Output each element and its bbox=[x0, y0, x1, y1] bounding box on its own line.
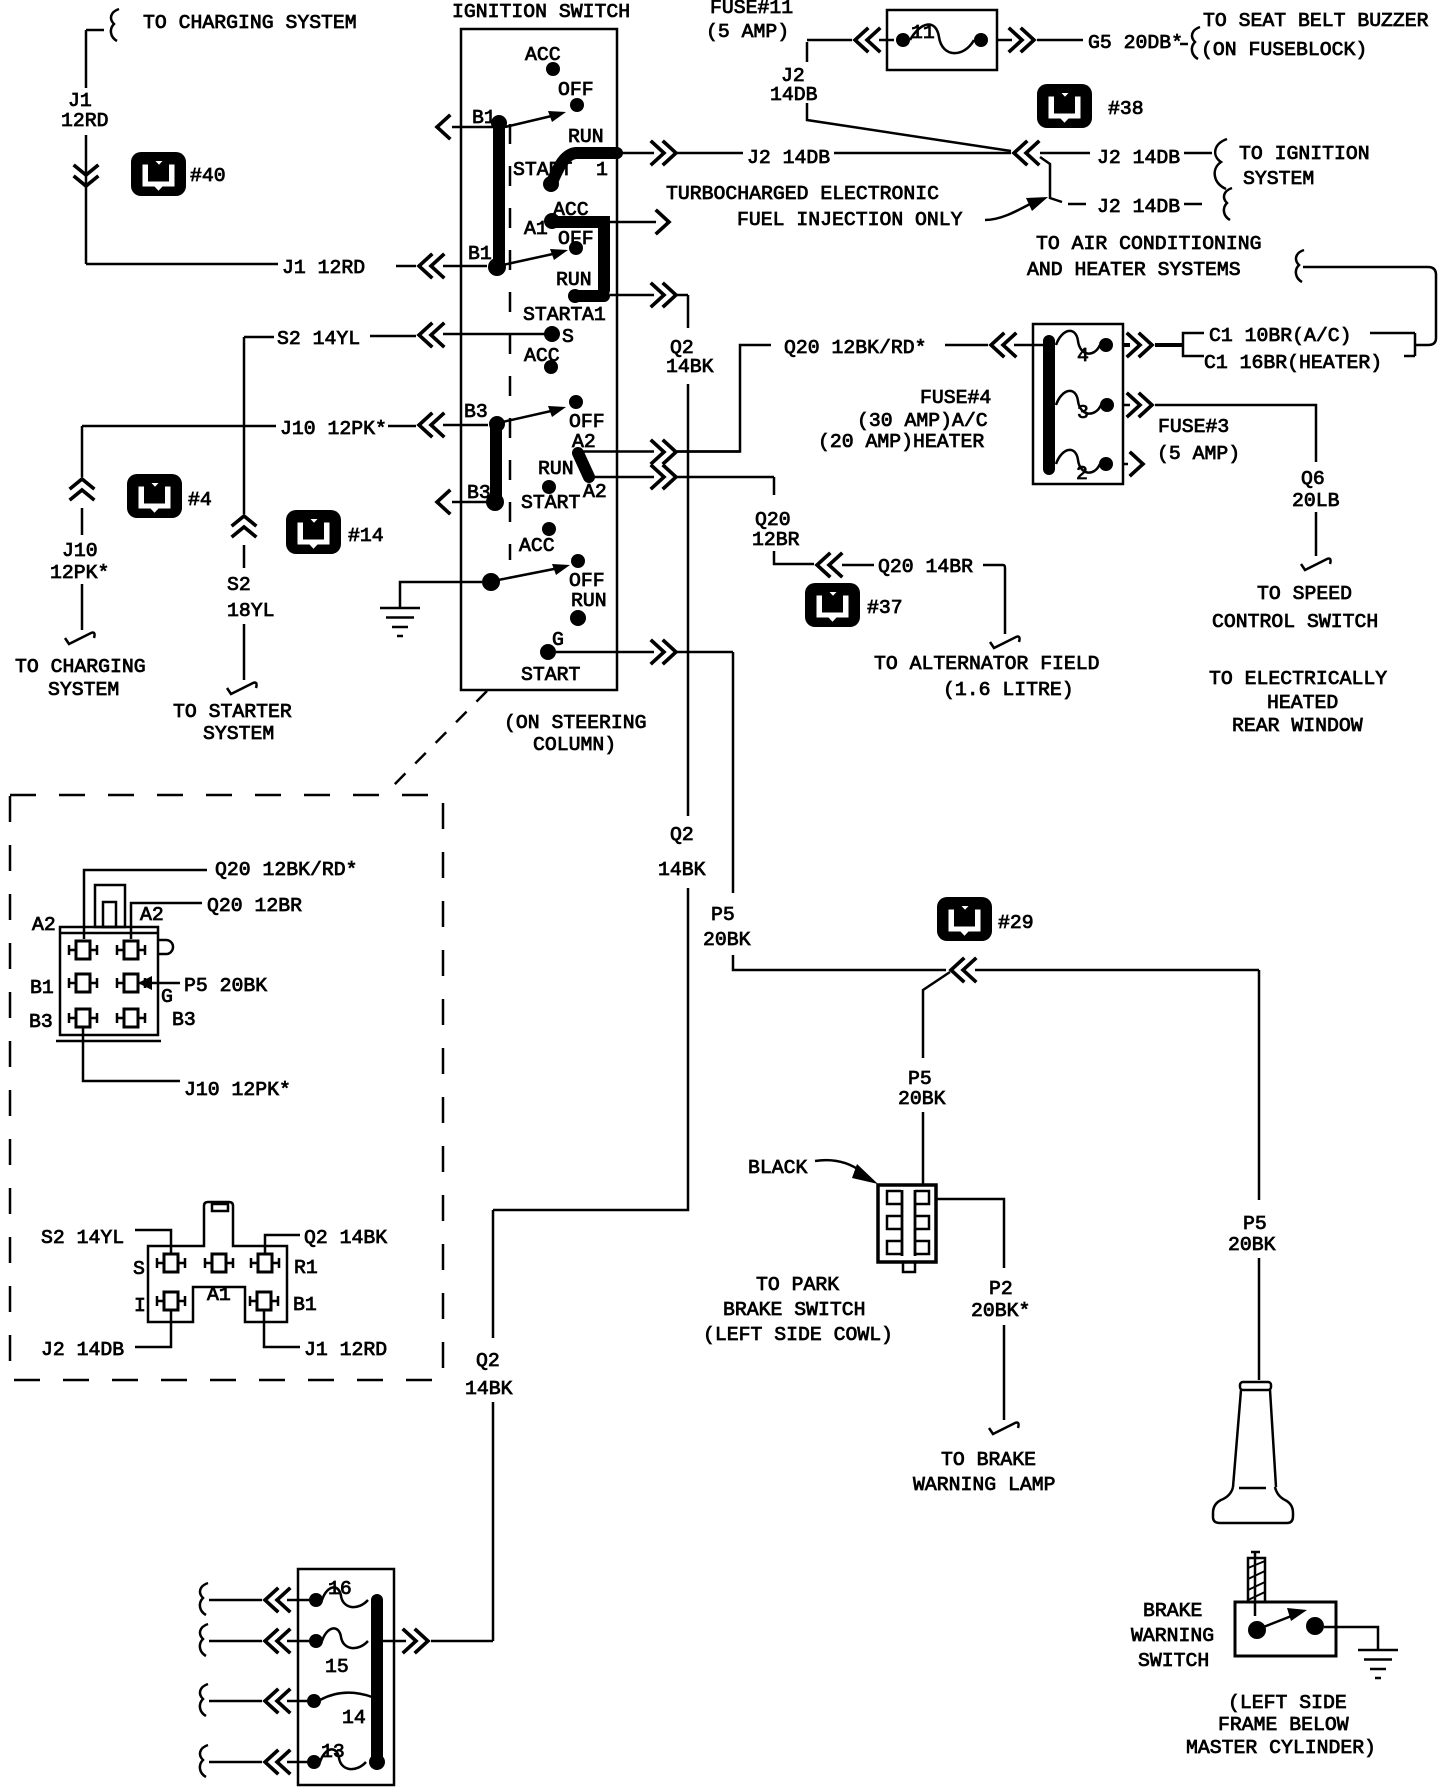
svg-text:12BR: 12BR bbox=[752, 529, 800, 551]
wire P5 20BK from ignition G bbox=[733, 652, 1259, 1380]
svg-text:A2: A2 bbox=[32, 914, 56, 936]
svg-text:START: START bbox=[521, 492, 580, 514]
switch arm bbox=[1261, 1615, 1294, 1628]
svg-text:ACC: ACC bbox=[524, 345, 560, 367]
splice icon #40 bbox=[131, 152, 186, 196]
fuse 4 output wire bbox=[1123, 343, 1183, 347]
wire J10 12PK* from pin B3 bbox=[83, 1027, 180, 1081]
svg-text:A1: A1 bbox=[582, 304, 606, 326]
wire Q2 14BK out of A1 RUN bbox=[610, 294, 688, 297]
fuse 16 bbox=[309, 1593, 323, 1607]
svg-text:S: S bbox=[562, 326, 574, 348]
wire A2 bottom out bbox=[594, 476, 774, 479]
svg-text:#29: #29 bbox=[998, 912, 1034, 934]
svg-text:A1: A1 bbox=[207, 1284, 231, 1306]
park brake connector bbox=[878, 1185, 936, 1262]
A1 thick contact bar bbox=[554, 222, 604, 296]
svg-text:TO BRAKE: TO BRAKE bbox=[941, 1449, 1036, 1471]
svg-text:B1: B1 bbox=[30, 977, 54, 999]
node OFF (section 1) bbox=[570, 98, 584, 112]
svg-text:J1 12RD: J1 12RD bbox=[282, 257, 365, 279]
svg-text:REAR WINDOW: REAR WINDOW bbox=[1232, 715, 1363, 737]
svg-text:FUSE#4: FUSE#4 bbox=[920, 387, 991, 409]
fuse 2 bbox=[1099, 457, 1113, 471]
pigtail to ignition system bbox=[1215, 139, 1227, 189]
svg-text:COLUMN): COLUMN) bbox=[533, 734, 616, 756]
svg-text:(LEFT SIDE COWL): (LEFT SIDE COWL) bbox=[703, 1324, 893, 1346]
connector C2 (key-in switch connector) bbox=[148, 1202, 287, 1322]
pin B3 right bbox=[117, 1009, 145, 1027]
svg-text:Q2: Q2 bbox=[476, 1350, 500, 1372]
svg-text:3: 3 bbox=[1077, 402, 1089, 424]
svg-text:SWITCH: SWITCH bbox=[1138, 1650, 1209, 1672]
wire J2 14DB to pin I bbox=[135, 1310, 171, 1347]
svg-text:2: 2 bbox=[1076, 463, 1088, 485]
fuse 11 element bbox=[896, 33, 910, 47]
svg-text:G5 20DB*: G5 20DB* bbox=[1088, 32, 1183, 54]
wire from AC/heater note to fuse 4 bbox=[1296, 250, 1304, 282]
svg-text:FUEL INJECTION ONLY: FUEL INJECTION ONLY bbox=[737, 209, 963, 231]
svg-text:J10 12PK*: J10 12PK* bbox=[184, 1079, 291, 1101]
pin center bbox=[205, 1254, 233, 1272]
svg-text:Q20 12BK/RD*: Q20 12BK/RD* bbox=[784, 337, 926, 359]
svg-text:20BK: 20BK bbox=[898, 1088, 946, 1110]
svg-text:TO STARTER: TO STARTER bbox=[173, 701, 292, 723]
svg-text:J2 14DB: J2 14DB bbox=[41, 1339, 124, 1361]
pin A2 bbox=[69, 941, 97, 959]
svg-text:START: START bbox=[521, 664, 580, 686]
svg-text:OFF: OFF bbox=[558, 228, 594, 250]
svg-text:#4: #4 bbox=[188, 489, 212, 511]
svg-text:12RD: 12RD bbox=[61, 110, 108, 132]
svg-text:P2: P2 bbox=[989, 1278, 1013, 1300]
pin S bbox=[157, 1254, 185, 1272]
svg-text:FUSE#3: FUSE#3 bbox=[1158, 416, 1229, 438]
svg-text:(5 AMP): (5 AMP) bbox=[1157, 443, 1240, 465]
node RUN (section 4) bbox=[570, 610, 586, 626]
svg-text:14BK: 14BK bbox=[658, 859, 706, 881]
svg-text:J2 14DB: J2 14DB bbox=[747, 147, 830, 169]
svg-text:B1: B1 bbox=[472, 107, 496, 129]
svg-text:Q2 14BK: Q2 14BK bbox=[304, 1227, 387, 1249]
wire S2 14YL to pin S bbox=[135, 1230, 171, 1254]
splice icon #14 bbox=[286, 510, 341, 554]
svg-text:HEATED: HEATED bbox=[1267, 692, 1338, 714]
svg-text:20BK: 20BK bbox=[703, 929, 751, 951]
fuse block box F4/F3/F2 bbox=[1033, 324, 1123, 484]
S2 wire down to starter bbox=[243, 337, 246, 680]
ignition switch box bbox=[461, 29, 617, 690]
bottom fuse block box bbox=[298, 1569, 394, 1785]
B1 bus bar bbox=[493, 124, 505, 266]
svg-text:WARNING LAMP: WARNING LAMP bbox=[913, 1474, 1055, 1496]
wire Q20 12BR bbox=[774, 477, 1005, 634]
pin B1 lower bbox=[250, 1292, 278, 1310]
switch plunger threaded rod bbox=[1251, 1552, 1260, 1616]
svg-text:14DB: 14DB bbox=[770, 84, 818, 106]
connector C1 (ignition switch connector) bbox=[60, 927, 158, 1035]
wire ACC stub (section 2) bbox=[610, 221, 656, 224]
wire Q2 14BK vertical chain bbox=[493, 295, 688, 1641]
svg-text:B3: B3 bbox=[464, 401, 488, 423]
svg-text:J10: J10 bbox=[62, 540, 98, 562]
dashed connector view box bbox=[10, 795, 443, 1380]
svg-text:20BK*: 20BK* bbox=[971, 1300, 1030, 1322]
switch arm B1-OFF bbox=[505, 114, 560, 127]
svg-text:SYSTEM: SYSTEM bbox=[203, 723, 274, 745]
svg-text:(5 AMP): (5 AMP) bbox=[706, 21, 789, 43]
svg-text:C1 10BR(A/C): C1 10BR(A/C) bbox=[1209, 325, 1351, 347]
svg-text:AND HEATER SYSTEMS: AND HEATER SYSTEMS bbox=[1027, 259, 1241, 281]
svg-text:BLACK: BLACK bbox=[748, 1157, 807, 1179]
svg-text:RUN: RUN bbox=[568, 126, 604, 148]
ground bbox=[380, 608, 420, 636]
svg-text:WARNING: WARNING bbox=[1131, 1625, 1214, 1647]
pin B1 bbox=[69, 974, 97, 992]
svg-text:14: 14 bbox=[342, 1707, 366, 1729]
node OFF (section 2) bbox=[569, 241, 583, 255]
svg-text:CONTROL SWITCH: CONTROL SWITCH bbox=[1212, 611, 1378, 633]
svg-text:SYSTEM: SYSTEM bbox=[48, 679, 119, 701]
svg-text:P5: P5 bbox=[1243, 1213, 1267, 1235]
node ACC (section 1) bbox=[546, 62, 560, 76]
node S bbox=[544, 326, 560, 342]
wire G5 20DB* bbox=[997, 40, 1188, 44]
svg-text:P5: P5 bbox=[711, 904, 735, 926]
svg-text:SYSTEM: SYSTEM bbox=[1243, 168, 1314, 190]
brake warning switch box bbox=[1235, 1602, 1336, 1656]
svg-text:FRAME BELOW: FRAME BELOW bbox=[1218, 1714, 1349, 1736]
node OFF (section 3) bbox=[569, 395, 583, 409]
wire to ground bbox=[1324, 1627, 1378, 1650]
splice icon #37 bbox=[805, 583, 860, 627]
svg-text:OFF: OFF bbox=[558, 79, 594, 101]
svg-text:TO CHARGING SYSTEM: TO CHARGING SYSTEM bbox=[143, 12, 357, 34]
svg-text:12PK*: 12PK* bbox=[50, 562, 109, 584]
svg-text:18YL: 18YL bbox=[227, 600, 274, 622]
svg-text:14BK: 14BK bbox=[465, 1378, 513, 1400]
A2 thick contact diagonal bbox=[578, 453, 589, 477]
svg-text:G: G bbox=[161, 986, 173, 1008]
fuse 11 box bbox=[887, 10, 997, 70]
fuse 15 output to Q2 bbox=[382, 1640, 493, 1643]
wire J2 14DB drop from fuse 11 bbox=[807, 42, 1011, 151]
node ACC (section 4) bbox=[542, 522, 556, 536]
svg-text:FUSE#11: FUSE#11 bbox=[710, 0, 793, 19]
svg-text:ACC: ACC bbox=[519, 535, 555, 557]
dashed J2 14DB branch bbox=[1068, 203, 1205, 206]
splice icon #29 bbox=[937, 897, 992, 941]
fuse 13 bbox=[307, 1755, 321, 1769]
svg-text:A2: A2 bbox=[140, 904, 164, 926]
svg-text:TO PARK: TO PARK bbox=[756, 1274, 839, 1296]
svg-text:#14: #14 bbox=[348, 525, 384, 547]
svg-text:B3: B3 bbox=[467, 482, 491, 504]
dashed line inside switch bbox=[509, 124, 512, 560]
svg-text:MASTER CYLINDER): MASTER CYLINDER) bbox=[1186, 1737, 1376, 1759]
svg-text:Q6: Q6 bbox=[1301, 468, 1325, 490]
fuse 3 output wire to Q6 bbox=[1123, 405, 1316, 556]
node A1 bbox=[544, 213, 560, 229]
svg-text:(LEFT SIDE: (LEFT SIDE bbox=[1228, 1692, 1347, 1714]
fuse 14 bbox=[307, 1694, 321, 1708]
svg-text:TO AIR CONDITIONING: TO AIR CONDITIONING bbox=[1036, 233, 1262, 255]
B3 bus bar bbox=[490, 424, 502, 500]
svg-text:TO SPEED: TO SPEED bbox=[1257, 583, 1352, 605]
dashed pointer to connector box bbox=[385, 691, 487, 794]
splice icon #38 bbox=[1037, 84, 1092, 128]
svg-text:BRAKE: BRAKE bbox=[1143, 1600, 1202, 1622]
svg-text:Q2: Q2 bbox=[670, 824, 694, 846]
fuse 4 bbox=[1099, 338, 1113, 352]
svg-text:J1 12RD: J1 12RD bbox=[304, 1339, 387, 1361]
svg-text:BRAKE SWITCH: BRAKE SWITCH bbox=[723, 1299, 865, 1321]
svg-text:P5: P5 bbox=[908, 1068, 932, 1090]
wire P2 20BK* bbox=[936, 1199, 1004, 1420]
node OFF (section 4) bbox=[571, 554, 585, 568]
svg-text:TO ALTERNATOR FIELD: TO ALTERNATOR FIELD bbox=[874, 653, 1100, 675]
svg-text:IGNITION SWITCH: IGNITION SWITCH bbox=[452, 1, 630, 23]
pin R1 bbox=[251, 1254, 279, 1272]
svg-text:RUN: RUN bbox=[538, 458, 574, 480]
svg-text:16: 16 bbox=[328, 1578, 352, 1600]
P5 branch to park brake connector bbox=[923, 972, 950, 1185]
wire A2 top out bbox=[583, 450, 740, 453]
svg-text:13: 13 bbox=[321, 1741, 345, 1763]
wire J10 12PK* row bbox=[82, 425, 488, 426]
pin G bbox=[117, 974, 145, 992]
brake warning switch plunger boot bbox=[1240, 1382, 1271, 1390]
svg-text:20BK: 20BK bbox=[1228, 1234, 1276, 1256]
fuse 3 bbox=[1100, 398, 1114, 412]
node START (section 3) bbox=[542, 480, 556, 494]
wire Q20 12BK/RD* to pin A2 bbox=[84, 870, 207, 939]
svg-text:20LB: 20LB bbox=[1292, 490, 1340, 512]
svg-text:S2: S2 bbox=[227, 574, 251, 596]
fuse block bus bar bbox=[1043, 341, 1055, 469]
svg-text:P5 20BK: P5 20BK bbox=[184, 975, 267, 997]
wire to fuse 11 bbox=[807, 39, 894, 42]
svg-text:(ON STEERING: (ON STEERING bbox=[504, 712, 646, 734]
wire Q20 12BK/RD* to fuse block bbox=[945, 344, 1044, 347]
svg-text:START: START bbox=[523, 304, 582, 326]
svg-text:C1 16BR(HEATER): C1 16BR(HEATER) bbox=[1204, 352, 1382, 374]
wire J1 12RD to pin B1 bbox=[264, 1310, 300, 1347]
svg-text:A2: A2 bbox=[583, 481, 607, 503]
svg-text:TO SEAT BELT BUZZER: TO SEAT BELT BUZZER bbox=[1203, 10, 1429, 32]
wire J2 14DB out of RUN bbox=[617, 152, 1212, 155]
svg-text:G: G bbox=[552, 629, 564, 651]
svg-text:RUN: RUN bbox=[556, 269, 592, 291]
node ACC (section 3) bbox=[544, 360, 558, 374]
node ACC (section 2) bbox=[552, 200, 555, 203]
switch arm B3-OFF bbox=[498, 409, 560, 423]
fuse 15 bbox=[309, 1634, 323, 1648]
svg-text:15: 15 bbox=[325, 1656, 349, 1678]
svg-text:S: S bbox=[133, 1258, 145, 1280]
svg-text:14BK: 14BK bbox=[666, 356, 714, 378]
svg-text:S2 14YL: S2 14YL bbox=[41, 1227, 124, 1249]
svg-text:#40: #40 bbox=[190, 165, 226, 187]
svg-text:1: 1 bbox=[596, 159, 608, 181]
svg-text:(1.6 LITRE): (1.6 LITRE) bbox=[943, 679, 1074, 701]
svg-text:OFF: OFF bbox=[569, 570, 605, 592]
svg-text:S2 14YL: S2 14YL bbox=[277, 328, 360, 350]
svg-text:(30 AMP)A/C: (30 AMP)A/C bbox=[857, 410, 988, 432]
svg-text:RUN: RUN bbox=[571, 590, 607, 612]
svg-text:J2 14DB: J2 14DB bbox=[1097, 196, 1180, 218]
wire Q20 12BR to pin bbox=[131, 903, 202, 939]
svg-text:A1: A1 bbox=[524, 218, 548, 240]
svg-text:J1: J1 bbox=[68, 90, 92, 112]
svg-text:B1: B1 bbox=[293, 1294, 317, 1316]
svg-text:Q20 12BK/RD*: Q20 12BK/RD* bbox=[215, 859, 357, 881]
svg-text:Q20 12BR: Q20 12BR bbox=[207, 895, 302, 917]
svg-text:#38: #38 bbox=[1108, 98, 1144, 120]
switch arm B1-OFF (section 2) bbox=[498, 252, 562, 266]
svg-text:START: START bbox=[513, 159, 572, 181]
svg-text:#37: #37 bbox=[867, 597, 903, 619]
svg-text:4: 4 bbox=[1077, 345, 1089, 367]
splice icon #4 bbox=[127, 474, 182, 518]
svg-text:J2 14DB: J2 14DB bbox=[1097, 147, 1180, 169]
svg-text:OFF: OFF bbox=[569, 411, 605, 433]
wire to ground bbox=[400, 582, 482, 608]
svg-text:I: I bbox=[134, 1295, 146, 1317]
svg-text:B3: B3 bbox=[172, 1009, 196, 1031]
C1 bracket left bbox=[1183, 333, 1204, 356]
J10 wire down to charging bbox=[81, 426, 84, 630]
svg-text:TURBOCHARGED ELECTRONIC: TURBOCHARGED ELECTRONIC bbox=[666, 183, 939, 205]
bottom fuse block bus bar bbox=[371, 1600, 383, 1762]
svg-text:Q20 14BR: Q20 14BR bbox=[878, 556, 973, 578]
wire Q2 14BK to pin R1 bbox=[265, 1235, 300, 1254]
svg-text:(20 AMP)HEATER: (20 AMP)HEATER bbox=[818, 431, 984, 453]
pin B3 bbox=[69, 1009, 97, 1027]
wire P5 from G bbox=[556, 651, 733, 654]
svg-text:11: 11 bbox=[911, 22, 935, 44]
switch arm GND-OFF bbox=[493, 567, 564, 581]
svg-text:Q20: Q20 bbox=[755, 509, 791, 531]
svg-text:J10 12PK*: J10 12PK* bbox=[280, 418, 387, 440]
svg-text:TO CHARGING: TO CHARGING bbox=[15, 656, 146, 678]
J2 branch bracket bbox=[1040, 157, 1062, 202]
svg-text:ACC: ACC bbox=[525, 44, 561, 66]
svg-text:B1: B1 bbox=[468, 243, 492, 265]
svg-text:(ON FUSEBLOCK): (ON FUSEBLOCK) bbox=[1201, 39, 1367, 61]
wire B3 bottom stub bbox=[452, 501, 487, 504]
ground right bbox=[1358, 1650, 1398, 1678]
node G bbox=[540, 644, 556, 660]
pin A2 right bbox=[117, 941, 145, 959]
pin I bbox=[157, 1292, 185, 1310]
svg-text:TO ELECTRICALLY: TO ELECTRICALLY bbox=[1209, 668, 1387, 690]
svg-text:TO IGNITION: TO IGNITION bbox=[1239, 143, 1370, 165]
svg-text:B3: B3 bbox=[29, 1011, 53, 1033]
wire B1 top stub bbox=[452, 126, 493, 129]
wire S2 14YL bbox=[244, 334, 546, 337]
wire P5 20BK from pin G bbox=[148, 982, 180, 985]
svg-text:R1: R1 bbox=[294, 1257, 318, 1279]
ground contact node bbox=[482, 573, 500, 591]
arrow from note to J2 branch bbox=[985, 204, 1030, 220]
